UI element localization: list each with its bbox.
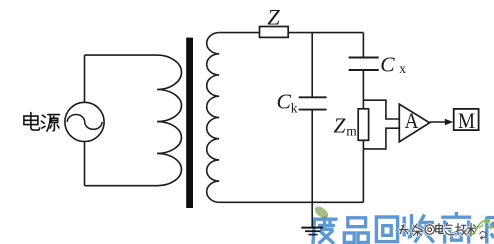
- 条: [412, 224, 423, 236]
- green sprout icon: [470, 221, 485, 235]
- 术: [467, 224, 475, 237]
- svg-text:M: M: [458, 108, 475, 133]
- svg-text:C: C: [277, 89, 292, 113]
- tiny curl: [480, 231, 486, 239]
- primary winding L1: [157, 55, 182, 186]
- svg-text:C: C: [380, 52, 395, 76]
- wire: primary left lower: [84, 142, 86, 186]
- AC source sine: [67, 115, 102, 130]
- 技: [456, 224, 467, 236]
- wire: bottom return: [219, 201, 363, 203]
- wire: amplifier input bracket bottom: [363, 128, 399, 149]
- svg-text:x: x: [399, 61, 406, 76]
- wire: amplifier output arrow line: [430, 121, 446, 123]
- wire: primary loop top: [85, 54, 158, 56]
- arrowhead: [445, 119, 453, 126]
- small watermark text 头条@电气技术: [400, 223, 476, 236]
- wire: primary loop bottom: [85, 185, 158, 187]
- transformer core: [186, 38, 193, 208]
- 电: [436, 224, 444, 234]
- ground: [301, 227, 323, 229]
- op-amp A triangle: [399, 104, 429, 142]
- secondary winding L2: [207, 33, 220, 203]
- 回: [376, 217, 397, 242]
- 源: [41, 115, 59, 132]
- wire: Cx down to Zm: [362, 70, 364, 109]
- impedance Zm box: [358, 109, 368, 141]
- watermark 废品回收商网 (drawn strokes): [313, 212, 494, 244]
- label 电源 (drawn strokes): [24, 113, 60, 132]
- wire: Ck down to ground through bottom wire: [311, 110, 313, 228]
- meter M box: [454, 109, 479, 130]
- 头: [400, 225, 409, 235]
- 网: [487, 217, 494, 244]
- wire: right corner down to Cx: [362, 33, 364, 58]
- 废: [313, 219, 338, 244]
- svg-text:Z: Z: [334, 113, 347, 137]
- wire: primary left upper: [84, 55, 86, 102]
- svg-text:k: k: [291, 101, 298, 116]
- 收: [404, 214, 434, 243]
- svg-text:A: A: [405, 108, 419, 133]
- wire: below Zm to bottom wire: [362, 140, 364, 202]
- resistor Z: [260, 27, 289, 38]
- 商: [441, 212, 471, 244]
- 品: [344, 218, 368, 243]
- 电: [24, 113, 40, 131]
- svg-text:Z: Z: [267, 5, 280, 30]
- wire: junction down to Ck: [311, 33, 313, 98]
- capacitor Ck plates: [299, 97, 327, 109]
- small watermark text 头条@电气技术 white halo: [400, 224, 476, 237]
- wire: top from secondary to Z: [219, 32, 259, 34]
- AC source circle: [65, 102, 104, 141]
- @: [425, 225, 434, 234]
- svg-text:m: m: [346, 123, 357, 138]
- capacitor Cx plates: [349, 58, 379, 71]
- 气: [445, 223, 453, 235]
- wire: amplifier input bracket top: [363, 100, 399, 119]
- watermark leaf: [313, 204, 330, 220]
- wire: Z to top-right corner: [288, 32, 363, 34]
